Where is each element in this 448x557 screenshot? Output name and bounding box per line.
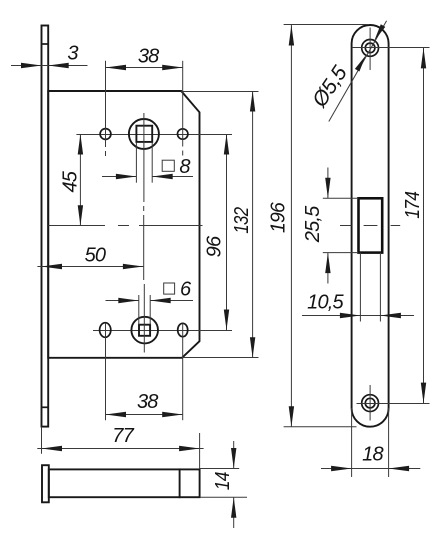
bottom screw hole bbox=[362, 385, 379, 421]
dimension 14 bbox=[200, 441, 247, 528]
svg-text:6: 6 bbox=[180, 279, 192, 301]
diameter 5,5 leader bbox=[308, 21, 387, 122]
dimension 96 bbox=[203, 134, 229, 330]
svg-text:14: 14 bbox=[212, 472, 234, 491]
faceplate strip (side view, left) bbox=[42, 26, 49, 427]
svg-text:25,5: 25,5 bbox=[302, 205, 324, 243]
dimension 38 bottom bbox=[106, 323, 183, 420]
dimension 50 bbox=[37, 244, 143, 269]
bar separator line bbox=[179, 469, 181, 497]
lock body bar (bottom side view) bbox=[49, 469, 200, 497]
faceplate end (bottom side view) bbox=[42, 465, 49, 502]
svg-text:8: 8 bbox=[179, 156, 190, 178]
top-right hole bbox=[178, 129, 188, 139]
svg-text:45: 45 bbox=[59, 170, 81, 192]
svg-text:38: 38 bbox=[137, 391, 158, 413]
bottom spindle vertical centerline bbox=[143, 284, 145, 353]
dimension 8 (square) bbox=[102, 143, 193, 183]
dimension 45 bbox=[59, 134, 83, 226]
dimension 3 bbox=[11, 43, 88, 69]
top-left hole bbox=[100, 129, 111, 140]
magnetic latch hole (thick rect) bbox=[359, 198, 383, 252]
horizontal dashed line at 45 level bbox=[48, 225, 105, 227]
svg-text:10,5: 10,5 bbox=[307, 292, 344, 314]
svg-text:96: 96 bbox=[203, 235, 225, 257]
dimension 174 bbox=[352, 48, 430, 404]
bottom spindle circle bbox=[131, 317, 158, 344]
svg-text:132: 132 bbox=[231, 207, 253, 234]
dimension 6 (square) bbox=[106, 279, 194, 325]
svg-text:77: 77 bbox=[112, 425, 134, 447]
dimension 196 bbox=[268, 25, 368, 427]
top hole row center line bbox=[76, 134, 232, 136]
dimension 132 bbox=[181, 91, 258, 358]
svg-text:18: 18 bbox=[362, 444, 383, 466]
svg-text:174: 174 bbox=[402, 191, 424, 219]
dimension 18 bbox=[321, 408, 420, 477]
bottom-left oval hole bbox=[100, 323, 111, 338]
bottom-right oval hole bbox=[178, 323, 188, 336]
dimension 77 bbox=[37, 425, 203, 469]
dimension 38 top bbox=[106, 45, 183, 156]
dimension 25,5 bbox=[302, 168, 358, 284]
dimension 10,5 bbox=[302, 253, 414, 322]
faceplate (front view, right) bbox=[352, 25, 389, 427]
svg-text:196: 196 bbox=[268, 201, 290, 233]
dashed centerline through latch bbox=[340, 225, 400, 227]
bottom hole row center line bbox=[93, 330, 232, 332]
svg-text:38: 38 bbox=[138, 45, 159, 67]
top spindle vertical centerline bbox=[143, 113, 145, 202]
svg-text:3: 3 bbox=[67, 43, 78, 65]
top screw hole bbox=[362, 28, 379, 71]
svg-text:50: 50 bbox=[85, 244, 106, 266]
vertical dashed centerline (backset axis) bbox=[143, 206, 145, 211]
top spindle circle bbox=[129, 119, 159, 149]
top spindle square 8mm bbox=[136, 126, 152, 142]
lock body outline bbox=[48, 91, 199, 358]
bottom spindle square 6mm bbox=[139, 325, 150, 336]
